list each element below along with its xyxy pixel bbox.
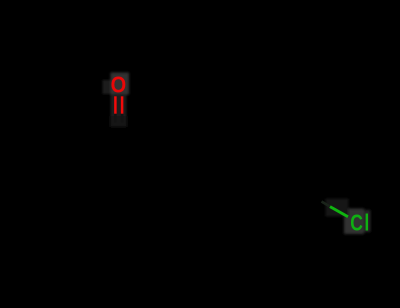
svg-text:O: O [111,71,127,98]
svg-text:Cl: Cl [350,212,371,237]
